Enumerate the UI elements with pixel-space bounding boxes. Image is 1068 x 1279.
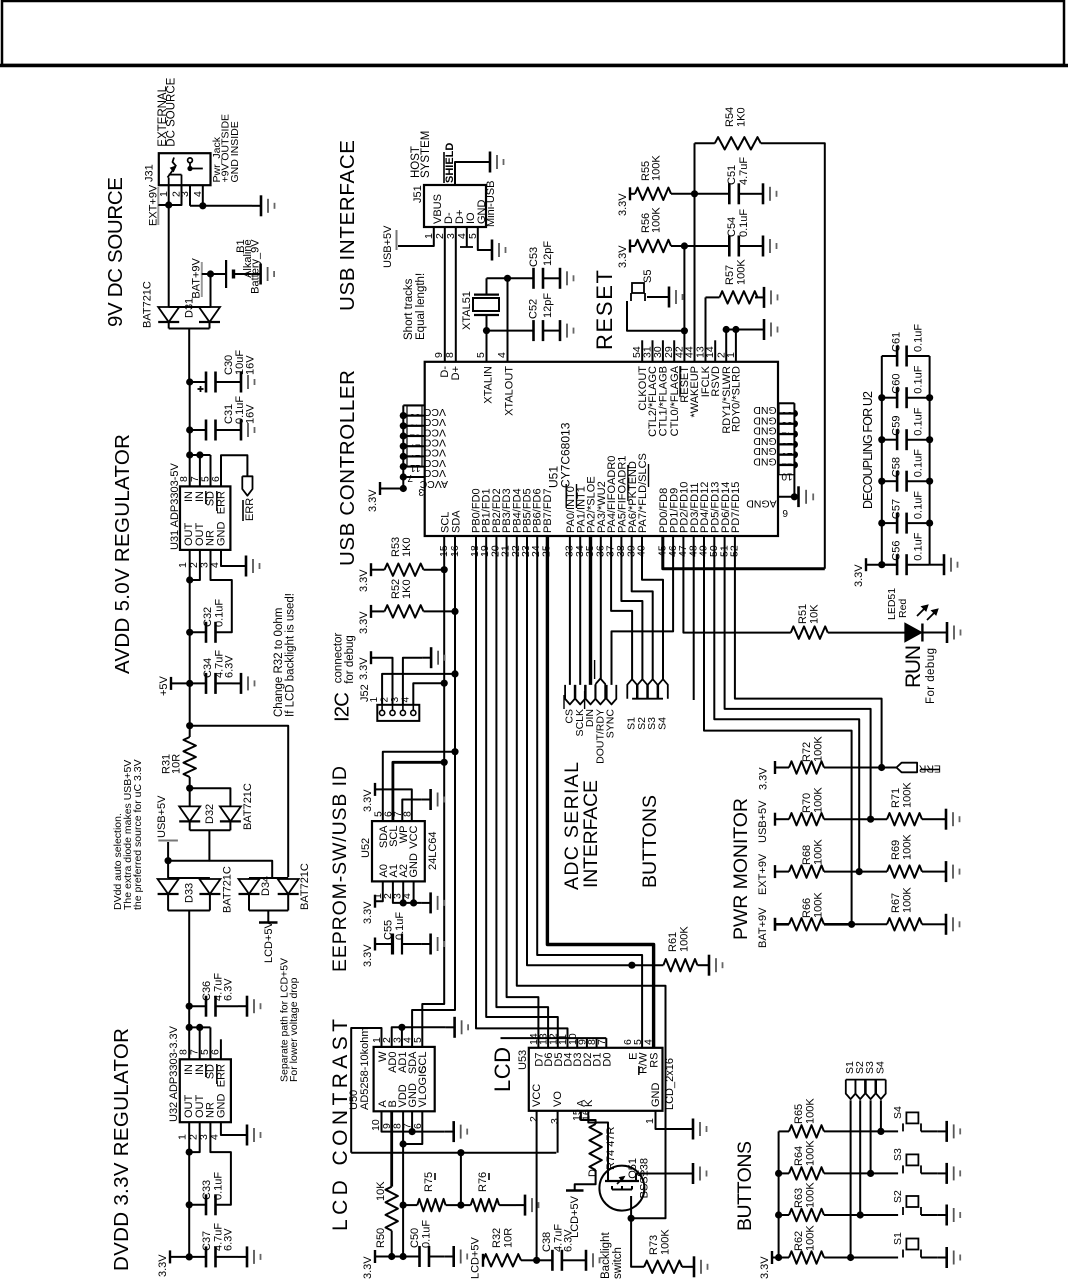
wire rail	[189, 382, 191, 430]
node U32 out junction	[186, 1149, 193, 1156]
svg-text:EEPROM-SW/USB ID: EEPROM-SW/USB ID	[329, 766, 351, 972]
power +5V	[170, 677, 172, 690]
wire U31 out rail	[189, 550, 191, 683]
svg-text:C38: C38	[541, 1232, 553, 1252]
node after R31	[186, 785, 193, 792]
wire PB4 backlight net	[517, 536, 666, 1218]
capacitor C59 0.1uF	[882, 439, 897, 441]
ic U52 24LC64	[372, 821, 425, 881]
resistor R65 100K	[779, 1130, 789, 1132]
wire U50 pin8 VDD net	[402, 1111, 404, 1256]
led arrows	[917, 606, 927, 616]
resistor R32 10R	[483, 1254, 521, 1266]
wire J51 D+ long	[455, 227, 457, 361]
wire U31 pin3 NR loop	[211, 550, 232, 632]
pin numbers GND stack	[779, 404, 794, 413]
svg-text:100K: 100K	[679, 926, 691, 952]
ground R67	[937, 923, 946, 925]
node S4 junction	[877, 1128, 884, 1135]
svg-text:10: 10	[781, 471, 793, 482]
switch S5	[632, 283, 644, 293]
wire J51 VBUS	[398, 227, 434, 246]
svg-text:BUTTONS: BUTTONS	[734, 1141, 756, 1231]
svg-text:100K: 100K	[736, 259, 748, 285]
svg-text:C61: C61	[891, 332, 903, 352]
resistor R52 1K0	[371, 610, 385, 612]
svg-text:0.1uF: 0.1uF	[913, 491, 925, 519]
switch S3	[871, 1172, 899, 1174]
power 3.3V at R55	[629, 187, 631, 200]
svg-text:GND: GND	[650, 1083, 662, 1108]
svg-text:4: 4	[496, 352, 508, 358]
wire J51 IO stub	[466, 227, 468, 247]
svg-text:3.3V: 3.3V	[853, 564, 865, 587]
wire RDY pulldown net	[683, 330, 685, 332]
svg-text:INTERFACE: INTERFACE	[580, 780, 602, 888]
node C36 junction	[186, 1003, 193, 1010]
wire WAKEUP net	[694, 143, 696, 361]
power 3.3V at AVCC	[380, 488, 403, 490]
svg-text:Backlight: Backlight	[600, 1232, 612, 1279]
wire PD3 down	[693, 536, 695, 700]
wire U52 pin8 VCC	[375, 789, 412, 821]
wire PA3 to DOUT flag	[600, 536, 602, 679]
flag SYNC	[607, 685, 617, 705]
svg-text:10R: 10R	[503, 1228, 515, 1248]
ground R76	[516, 1204, 525, 1206]
wire U53 VCC net	[536, 1111, 538, 1261]
ground R61	[700, 964, 709, 966]
svg-text:S1: S1	[892, 1232, 904, 1245]
svg-text:R70: R70	[801, 793, 813, 813]
svg-text:Short tracks: Short tracks	[403, 278, 415, 340]
svg-text:1K0: 1K0	[401, 579, 413, 599]
svg-text:D34: D34	[260, 876, 272, 896]
svg-text:6: 6	[210, 1049, 222, 1055]
wire rail to U32	[188, 1006, 190, 1059]
ground C54	[754, 245, 763, 247]
svg-text:3.3V: 3.3V	[362, 901, 374, 924]
svg-text:100K: 100K	[651, 207, 663, 233]
pin circle J31	[188, 158, 193, 163]
svg-text:1K0: 1K0	[401, 537, 413, 557]
node C38 junction	[533, 1257, 540, 1264]
svg-text:CY7C68013: CY7C68013	[559, 422, 573, 488]
svg-text:R51: R51	[797, 604, 809, 624]
svg-text:0.1uF: 0.1uF	[913, 532, 925, 560]
ground U52 WP	[422, 799, 431, 801]
ic U50 AD5258-10kohm	[374, 1047, 435, 1111]
resistor R57 100K	[706, 296, 720, 298]
svg-text:the preferred source for uC 3.: the preferred source for uC 3.3V	[132, 759, 144, 910]
wire U50 pin1 W to wiper net	[351, 1028, 381, 1153]
capacitor C57 0.1uF	[882, 522, 897, 524]
capacitor C54 0.1uF	[728, 236, 731, 257]
ground C55	[422, 943, 431, 945]
svg-text:R54: R54	[724, 107, 736, 127]
svg-text:9V DC SOURCE: 9V DC SOURCE	[104, 177, 127, 327]
svg-text:LCD_2x16: LCD_2x16	[664, 1058, 676, 1110]
capacitor C50 0.1uF	[418, 1246, 421, 1267]
connector J51 Mini-USB	[424, 185, 486, 227]
svg-text:4.7uF: 4.7uF	[738, 157, 750, 185]
svg-text:6.3V: 6.3V	[223, 1228, 235, 1251]
capacitor C38 4.7uF 6.3V	[551, 1250, 554, 1271]
ground RDY net	[755, 329, 764, 331]
pin stub RSVD	[714, 340, 716, 362]
wire PA1 to SCLK flag	[579, 536, 581, 685]
resistor R73 100K	[644, 1261, 682, 1273]
wire RESET net	[683, 331, 685, 362]
wire U31 pin2	[190, 550, 200, 580]
switch S1	[851, 1257, 899, 1259]
wire wiper net horizontal	[351, 1152, 556, 1154]
svg-text:AD5258-10kohm: AD5258-10kohm	[359, 1027, 371, 1110]
svg-text:Change R32 to 0ohm: Change R32 to 0ohm	[273, 608, 285, 717]
svg-text:D32: D32	[204, 804, 216, 824]
wire PB0 to LCD D4	[476, 536, 568, 1048]
svg-text:6: 6	[782, 507, 788, 518]
svg-text:J51: J51	[412, 185, 424, 203]
ground J51	[483, 249, 492, 251]
svg-text:XTALIN: XTALIN	[483, 366, 495, 404]
wire RDY0 stub	[735, 330, 737, 362]
wire U32 pin6 stub	[220, 1039, 222, 1059]
wire J52 pin4 to SCL	[413, 683, 444, 705]
ground SHIELD	[481, 161, 490, 163]
svg-text:D: D	[587, 1169, 599, 1177]
svg-text:0.1uF: 0.1uF	[738, 209, 750, 237]
svg-text:DC SOURCE: DC SOURCE	[166, 77, 178, 146]
svg-text:I2C: I2C	[331, 692, 354, 722]
wire E to R61	[632, 964, 664, 966]
svg-text:BSS138: BSS138	[639, 1158, 651, 1198]
resistor R69 100K	[859, 871, 887, 873]
resistor R61 100K	[663, 959, 697, 971]
node WAKEUP R55 junction	[691, 190, 698, 197]
wire R74 to LCD+5V	[575, 1170, 596, 1190]
flag CS	[565, 685, 575, 705]
wire PA7 to S4 flag	[642, 536, 663, 680]
capacitor C30 10uF 16V	[205, 372, 208, 393]
wire PD2 to R51	[683, 536, 790, 633]
transistor Q51 BSS138	[599, 1166, 644, 1211]
wire U52 pin1 A0	[375, 881, 383, 901]
wire S4 flag net	[880, 1100, 882, 1131]
wire D34 output to LCD+5V	[267, 911, 269, 923]
svg-text:R57: R57	[724, 265, 736, 285]
ground C34	[232, 682, 241, 684]
node S1 junction	[847, 1254, 854, 1261]
switch S2	[860, 1214, 898, 1216]
svg-text:10K: 10K	[809, 604, 821, 624]
svg-text:switch: switch	[612, 1247, 624, 1279]
resistor R31 10R	[184, 737, 196, 777]
svg-text:D+: D+	[450, 366, 462, 380]
svg-text:BAT721C: BAT721C	[242, 783, 254, 830]
ground LED51	[938, 632, 947, 634]
svg-text:1: 1	[644, 1118, 656, 1124]
capacitor C53 12pF	[532, 268, 535, 289]
wire PD4 to BAT monitor	[704, 536, 852, 924]
resistor R56 100K	[630, 245, 635, 247]
resistor R74 47R vertical	[589, 1124, 601, 1170]
svg-text:4: 4	[643, 1039, 655, 1045]
svg-text:S4: S4	[656, 717, 668, 730]
wire to C30	[190, 381, 206, 383]
ground U53 GND	[684, 1128, 693, 1130]
svg-text:8: 8	[444, 352, 456, 358]
node S3 junction	[867, 1170, 874, 1177]
svg-text:C52: C52	[528, 299, 540, 319]
capacitor C31 0.1uF 16V	[205, 420, 208, 441]
wire U53 pin1 GND	[656, 1111, 685, 1129]
node ERR junction	[878, 764, 885, 771]
svg-text:Red: Red	[897, 599, 909, 618]
wire U31 pin7	[190, 454, 211, 456]
resistor R64 100K	[779, 1172, 789, 1174]
ground C38	[577, 1259, 586, 1261]
svg-text:USB+5V: USB+5V	[156, 795, 168, 838]
svg-text:For debug: For debug	[925, 648, 937, 704]
wire SCL to U52 pin6	[393, 762, 444, 821]
wire PD7 to ERR monitor	[735, 536, 882, 768]
capacitor C52 12pF	[532, 320, 535, 341]
wire PB3 to LCD D7	[507, 536, 539, 1048]
svg-text:PA7/*FLD/SLCS: PA7/*FLD/SLCS	[637, 453, 649, 533]
svg-text:R32: R32	[491, 1228, 503, 1248]
svg-text:3.3V: 3.3V	[362, 789, 374, 812]
capacitor C51 4.7uF	[728, 183, 731, 204]
wire U53 VO	[557, 1111, 559, 1153]
wire S3 flag net	[870, 1100, 872, 1173]
svg-text:ERR: ERR	[918, 763, 941, 775]
svg-text:AVDD 5.0V REGULATOR: AVDD 5.0V REGULATOR	[111, 434, 134, 674]
wire D31 output	[188, 329, 190, 383]
svg-text:S2: S2	[892, 1190, 904, 1203]
wire +5V to D34	[190, 726, 289, 877]
svg-text:SYSTEM: SYSTEM	[420, 131, 432, 178]
svg-text:4: 4	[400, 697, 411, 703]
capacitor C32 0.1uF	[205, 622, 208, 643]
svg-text:D33: D33	[184, 883, 196, 903]
battery B1	[225, 260, 227, 288]
wire rail to U31	[189, 430, 191, 486]
wire D32 output	[209, 830, 272, 878]
svg-text:10K: 10K	[375, 1181, 387, 1201]
wire VCC bus	[402, 405, 404, 488]
wire decoupling right rail	[929, 356, 931, 565]
power 3.3V at C55	[374, 938, 376, 951]
svg-text:1K0: 1K0	[736, 107, 748, 127]
capacitor C34 4.7uF 6.3V	[205, 673, 208, 694]
svg-text:100K: 100K	[660, 1229, 672, 1255]
power 3.3V at R53	[370, 563, 372, 576]
resistor R55 100K	[630, 193, 635, 195]
svg-text:SYNC: SYNC	[605, 709, 617, 739]
node R70 junction	[867, 816, 874, 823]
svg-text:0.1uF: 0.1uF	[213, 1172, 225, 1200]
wire J51 D- long	[444, 227, 446, 361]
ground AGND	[794, 496, 798, 498]
svg-text:3.3V: 3.3V	[367, 489, 379, 512]
svg-text:C51: C51	[726, 165, 738, 185]
node R66 junction	[848, 921, 855, 928]
svg-text:GND INSIDE: GND INSIDE	[229, 121, 241, 182]
node BAT+9V junction	[207, 270, 214, 277]
svg-text:U32 ADP3303-3.3V: U32 ADP3303-3.3V	[168, 1025, 180, 1122]
diode D31 dual BAT721C	[169, 306, 211, 308]
svg-text:RS: RS	[648, 1053, 660, 1068]
svg-text:U52: U52	[360, 838, 372, 858]
resistor R76	[471, 1199, 499, 1211]
svg-text:GND: GND	[408, 853, 420, 878]
svg-text:D0: D0	[601, 1053, 613, 1067]
node USB+5V junction	[165, 857, 172, 864]
svg-text:C55: C55	[383, 920, 395, 940]
wire J52 pin1 to SDA	[382, 674, 455, 705]
ground S5	[660, 296, 669, 298]
svg-text:ERR: ERR	[244, 498, 256, 521]
svg-text:C34: C34	[202, 658, 214, 678]
svg-text:3.3V: 3.3V	[617, 193, 629, 216]
ground C52	[551, 330, 560, 332]
svg-text:0.1uF: 0.1uF	[913, 365, 925, 393]
node S2 junction	[857, 1211, 864, 1218]
power 3.3V at C37	[169, 1250, 171, 1263]
node U31 IN junction	[186, 451, 193, 458]
ground S3	[938, 1172, 947, 1174]
diode D34 dual BAT721C	[249, 877, 288, 879]
svg-text:R74 47R: R74 47R	[605, 1127, 617, 1170]
svg-text:R69: R69	[890, 840, 902, 860]
svg-text:100K: 100K	[805, 1182, 817, 1208]
svg-text:J31: J31	[144, 164, 156, 182]
pin stub AGND	[778, 496, 795, 498]
ic U53 LCD_2x16	[529, 1048, 663, 1111]
ground R69	[937, 871, 946, 873]
svg-text:VCC: VCC	[423, 426, 446, 438]
wire U31 pin4 to gnd	[221, 550, 237, 566]
wire U52 pins 2 3 4 gnd	[393, 881, 422, 903]
capacitor C37 4.7uF 6.3V	[205, 1246, 208, 1267]
svg-text:C60: C60	[891, 374, 903, 394]
flags S1-S4 buttons header	[846, 1080, 856, 1100]
wire U53 pin15 A to R74	[581, 1111, 596, 1124]
wire PA4 to S1 flag	[611, 536, 632, 680]
resistor R63 100K	[779, 1214, 789, 1216]
svg-text:12pF: 12pF	[542, 241, 554, 266]
svg-text:BAT721C: BAT721C	[142, 281, 154, 328]
connector J52	[377, 705, 419, 721]
wire XTALOUT net	[507, 278, 509, 361]
svg-text:for debug: for debug	[344, 635, 356, 684]
svg-text:GND: GND	[753, 404, 777, 416]
svg-text:100K: 100K	[813, 892, 825, 918]
svg-text:100K: 100K	[813, 787, 825, 813]
wire PA0 to CS flag	[569, 536, 571, 685]
svg-text:16V: 16V	[245, 404, 257, 424]
wire GND bus	[793, 403, 795, 497]
wire IFCLK net	[705, 297, 707, 361]
svg-text:SDA: SDA	[451, 510, 463, 533]
svg-text:LCD+5V: LCD+5V	[470, 1236, 482, 1279]
wire PB1 to LCD D5	[486, 536, 558, 1048]
pin stubs top right group	[641, 340, 643, 362]
svg-text:R66: R66	[801, 898, 813, 918]
wire LCD+5V to R32	[482, 1259, 484, 1261]
capacitor C36 4.7uF 6.3V	[205, 996, 208, 1017]
wire U32 out rail	[188, 1122, 190, 1257]
svg-text:GND: GND	[753, 435, 777, 447]
wire J31 pin3	[189, 185, 191, 206]
svg-text:100K: 100K	[902, 782, 914, 808]
svg-text:0.1uF: 0.1uF	[913, 449, 925, 477]
svg-text:100K: 100K	[902, 887, 914, 913]
resistor R72 100K	[775, 767, 789, 769]
svg-text:R63: R63	[793, 1188, 805, 1208]
svg-text:USB+5V: USB+5V	[382, 225, 394, 268]
svg-text:R75: R75	[423, 1172, 435, 1192]
ground Q51 S	[684, 1173, 693, 1175]
wire PD0 to R54 semi-bold	[663, 536, 825, 569]
wire U50 pin9 B bold to R50	[390, 1111, 393, 1186]
resistor R71 100K	[871, 818, 887, 820]
ground U50 AD pins	[446, 1026, 455, 1028]
ground R57	[755, 296, 764, 298]
node wiper R75 junction	[457, 1202, 464, 1209]
svg-text:CTL1/*FLAGB: CTL1/*FLAGB	[658, 366, 670, 436]
svg-text:DVDD 3.3V REGULATOR: DVDD 3.3V REGULATOR	[110, 1028, 133, 1271]
svg-text:LCD: LCD	[490, 1047, 515, 1092]
wire U32 pin2	[189, 1122, 200, 1152]
ground C36	[238, 1005, 247, 1007]
flag S3 header	[648, 679, 658, 699]
wire SDA to U52 pin5	[383, 752, 455, 821]
svg-text:C32: C32	[202, 607, 214, 627]
svg-text:USB INTERFACE: USB INTERFACE	[336, 140, 359, 311]
wire U50 pins2-3 tie to gnd	[392, 1027, 446, 1047]
ground C37	[238, 1256, 247, 1258]
svg-text:100K: 100K	[805, 1140, 817, 1166]
wire PD6 to USB monitor	[725, 536, 871, 819]
wire J52 pin3 gnd net	[403, 658, 422, 705]
svg-text:C57: C57	[891, 499, 903, 519]
svg-text:VCC: VCC	[531, 1084, 543, 1107]
svg-text:3.3V: 3.3V	[759, 1256, 771, 1279]
diode D33 dual BAT721C	[168, 877, 210, 879]
wire LCD D3-D0 net	[501, 1037, 607, 1039]
svg-text:GND: GND	[216, 1094, 228, 1119]
node C37 junction	[186, 1253, 193, 1260]
wire decoupling left rail	[866, 564, 897, 566]
resistor R54 1K0	[695, 142, 715, 144]
flag S2 header	[638, 679, 648, 699]
svg-text:R68: R68	[801, 845, 813, 865]
svg-text:U53: U53	[517, 1050, 529, 1070]
svg-text:100K: 100K	[813, 839, 825, 865]
wire BAT+9V	[210, 274, 212, 307]
svg-text:GND: GND	[216, 522, 228, 547]
svg-text:BAT721C: BAT721C	[299, 863, 311, 910]
svg-text:C54: C54	[726, 217, 738, 237]
ground U50 gnd net	[445, 1131, 454, 1133]
svg-text:U31 ADP3303-5V: U31 ADP3303-5V	[169, 463, 181, 550]
node R61 E junction	[628, 962, 635, 969]
svg-text:12pF: 12pF	[542, 293, 554, 318]
wire J51 GND	[478, 227, 483, 250]
svg-text:0.1uF: 0.1uF	[913, 407, 925, 435]
